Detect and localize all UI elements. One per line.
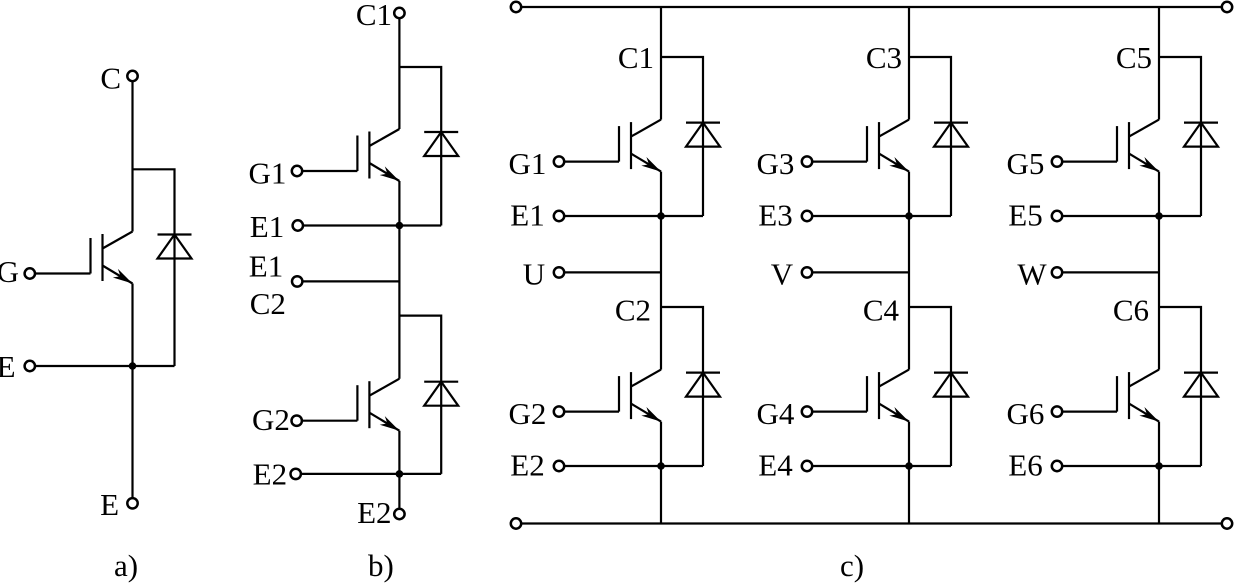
svg-text:C3: C3 — [866, 40, 902, 75]
svg-text:E: E — [0, 349, 16, 384]
svg-text:E2: E2 — [253, 456, 287, 491]
svg-text:G2: G2 — [509, 396, 547, 431]
svg-text:G2: G2 — [252, 402, 290, 437]
svg-text:C5: C5 — [1116, 40, 1152, 75]
svg-text:c): c) — [840, 548, 864, 583]
svg-text:E1: E1 — [510, 198, 544, 233]
svg-text:U: U — [523, 257, 545, 292]
svg-text:G4: G4 — [757, 396, 795, 431]
svg-text:C4: C4 — [863, 293, 900, 328]
svg-text:V: V — [771, 257, 794, 292]
svg-text:G1: G1 — [249, 156, 287, 191]
svg-text:E2: E2 — [357, 495, 391, 530]
svg-text:C2: C2 — [615, 293, 651, 328]
svg-text:G5: G5 — [1007, 146, 1045, 181]
svg-text:E3: E3 — [758, 198, 792, 233]
svg-text:C: C — [100, 61, 121, 96]
svg-text:G6: G6 — [1007, 396, 1045, 431]
svg-text:a): a) — [114, 548, 138, 583]
svg-text:G1: G1 — [509, 146, 547, 181]
svg-text:E5: E5 — [1008, 198, 1042, 233]
svg-text:W: W — [1017, 257, 1047, 292]
svg-text:E: E — [100, 487, 119, 522]
svg-text:E4: E4 — [758, 448, 793, 483]
svg-text:C1: C1 — [356, 0, 392, 32]
svg-text:G3: G3 — [757, 146, 795, 181]
svg-text:E1: E1 — [249, 249, 283, 284]
svg-text:C1: C1 — [618, 40, 654, 75]
svg-text:C2: C2 — [250, 286, 286, 321]
svg-text:b): b) — [368, 548, 394, 583]
svg-text:E1: E1 — [250, 209, 284, 244]
svg-text:E2: E2 — [510, 448, 544, 483]
svg-text:C6: C6 — [1113, 293, 1149, 328]
svg-text:G: G — [0, 254, 19, 289]
svg-text:E6: E6 — [1008, 448, 1042, 483]
